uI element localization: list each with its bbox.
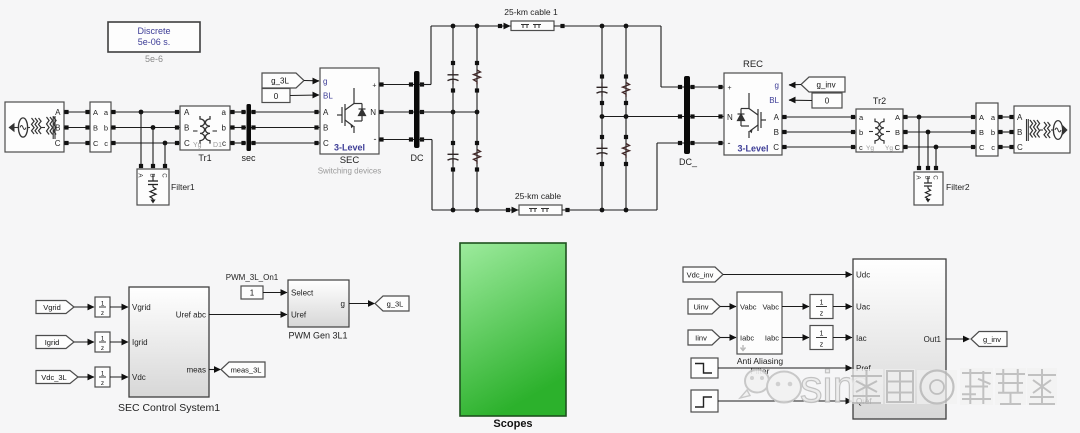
wire Tr1 to sec bus	[230, 110, 246, 145]
svg-text:A: A	[979, 113, 984, 122]
svg-text:Yg: Yg	[866, 145, 874, 152]
svg-text:+: +	[372, 83, 376, 90]
svg-text:1: 1	[101, 336, 105, 343]
block three-phase V-I measurement 1	[90, 102, 111, 152]
svg-text:B: B	[149, 173, 156, 177]
unit delay 1/z (Vgrid)	[95, 297, 110, 317]
svg-text:BL: BL	[323, 92, 333, 101]
constant 0 block (REC BL)	[812, 93, 842, 108]
svg-text:g: g	[323, 77, 327, 86]
svg-text:g_3L: g_3L	[271, 77, 289, 86]
svg-text:Vdc_inv: Vdc_inv	[687, 271, 714, 280]
converter block SEC 3-Level	[320, 68, 379, 154]
svg-text:Igrid: Igrid	[132, 338, 148, 347]
svg-text:3-Level: 3-Level	[334, 143, 365, 153]
label SEC Control System1	[118, 402, 220, 414]
step block Pref	[691, 358, 718, 378]
svg-text:g_3L: g_3L	[387, 300, 404, 309]
svg-text:g_inv: g_inv	[983, 335, 1001, 344]
bus bar sec	[247, 104, 252, 151]
svg-text:meas_3L: meas_3L	[231, 366, 262, 375]
svg-text:A: A	[323, 108, 329, 117]
svg-text:PWM Gen 3L1: PWM Gen 3L1	[288, 331, 347, 341]
svg-text:B: B	[55, 124, 60, 133]
svg-text:c: c	[104, 139, 108, 148]
svg-text:5e-06 s.: 5e-06 s.	[138, 37, 171, 47]
svg-text:Anti Aliasing: Anti Aliasing	[737, 356, 784, 366]
svg-text:Out1: Out1	[924, 335, 942, 344]
wire top rail cable1 to DC_ bus	[554, 24, 684, 90]
wire Out1 to g_inv tag	[946, 336, 970, 343]
svg-text:Tr2: Tr2	[873, 96, 886, 106]
From tag Vdc_inv	[683, 267, 723, 282]
wire unit delays to SEC Control System1	[110, 304, 129, 381]
label PWM Gen 3L1	[288, 331, 347, 341]
svg-text:REC: REC	[743, 59, 763, 70]
label Scopes	[493, 418, 532, 430]
wire DC_ bus to REC + N -	[690, 85, 724, 145]
wire DC bus to rails (top rail, mid rail, bottom rail left)	[419, 23, 519, 214]
svg-text:DC_: DC_	[679, 157, 698, 167]
transformer Tr2	[856, 109, 903, 152]
svg-text:Iinv: Iinv	[695, 334, 707, 343]
svg-text:z: z	[101, 380, 104, 387]
unit delay 1/z (Uac)	[810, 295, 833, 319]
Goto tag meas_3L	[221, 362, 265, 377]
svg-text:g_inv: g_inv	[816, 81, 835, 90]
label Filter2	[946, 182, 970, 192]
block three-phase V-I measurement 2	[976, 103, 998, 156]
label DC	[411, 153, 424, 163]
block 25-km cable	[519, 205, 562, 215]
svg-text:z: z	[820, 342, 824, 349]
svg-text:Iabc: Iabc	[765, 334, 779, 343]
label 5e-6	[145, 54, 163, 64]
svg-text:N: N	[727, 113, 733, 122]
unit delay 1/z (Igrid)	[95, 332, 110, 352]
svg-text:C: C	[323, 139, 329, 148]
capacitor branch column C2 (right)	[597, 26, 608, 210]
transformer Tr1	[180, 106, 230, 150]
From tag g_3L	[262, 73, 304, 88]
From tag Uinv	[688, 299, 720, 314]
svg-text:Vdc_3L: Vdc_3L	[41, 373, 66, 382]
svg-text:B: B	[1017, 128, 1022, 137]
block Filter2	[914, 172, 943, 205]
svg-text:A: A	[184, 108, 190, 117]
block PWM Gen 3L1	[288, 280, 349, 327]
wire unit delay to Iac	[833, 334, 853, 341]
watermark sim + logo + CJK text	[740, 361, 1057, 412]
label Tr2	[873, 96, 886, 106]
wire measurement2 to source2	[998, 115, 1014, 149]
svg-text:A: A	[915, 175, 921, 179]
wire Vabc to unit delay 4	[782, 303, 810, 310]
label 25-km cable 1	[504, 7, 558, 17]
wire source1 to measurement1 phases A B C	[64, 110, 90, 145]
constant 1 block PWM_3L_On1	[241, 286, 263, 299]
label DC_	[679, 157, 698, 167]
wire measurement1 to Tr1 with taps down to Filter1	[111, 110, 180, 168]
svg-text:N: N	[370, 108, 376, 117]
svg-text:b: b	[859, 128, 863, 137]
svg-text:SEC Control System1: SEC Control System1	[118, 402, 220, 414]
svg-text:Filter1: Filter1	[171, 182, 195, 192]
svg-text:c: c	[991, 143, 995, 152]
label sec	[241, 153, 256, 163]
unit delay 1/z (Vdc)	[95, 367, 110, 387]
label Tr1	[198, 153, 211, 163]
bus bar DC	[414, 71, 420, 148]
svg-text:-: -	[728, 138, 731, 148]
svg-text:B: B	[323, 124, 328, 133]
block AC source 1 (three-phase source)	[5, 102, 64, 152]
From tag Vdc_3L	[36, 371, 78, 384]
label REC	[743, 59, 763, 70]
svg-text:C: C	[161, 173, 168, 178]
svg-text:A: A	[1017, 113, 1023, 122]
block Filter1	[137, 169, 170, 205]
label SEC	[340, 155, 360, 166]
svg-text:C: C	[932, 175, 938, 180]
svg-text:Vabc: Vabc	[740, 303, 757, 312]
powergui block Discrete 5e-06 s.	[108, 22, 200, 52]
svg-text:a: a	[222, 108, 227, 117]
svg-text:Udc: Udc	[856, 271, 870, 280]
wire Vdc_inv to Udc	[723, 271, 853, 278]
wire step to Pref	[718, 365, 853, 372]
svg-text:+: +	[728, 85, 732, 92]
svg-text:C: C	[55, 139, 61, 148]
wire Uref abc to PWM Gen	[209, 311, 288, 318]
wire sec bus to SEC converter A B C	[251, 110, 320, 145]
svg-text:Igrid: Igrid	[45, 338, 60, 347]
wire Igrid to unit delay	[74, 339, 95, 346]
wire meas to meas_3L tag	[209, 366, 221, 373]
wire Iinv to Iabc	[720, 334, 737, 341]
svg-text:-: -	[374, 134, 377, 144]
svg-text:C: C	[184, 139, 190, 148]
svg-text:A: A	[774, 113, 780, 122]
From tag Iinv	[688, 330, 720, 345]
svg-text:25-km cable 1: 25-km cable 1	[504, 7, 558, 17]
svg-text:25-km cable: 25-km cable	[515, 191, 562, 201]
svg-text:5e-6: 5e-6	[145, 54, 163, 64]
subsystem SEC Control System1	[129, 287, 209, 397]
unit delay 1/z (Iac)	[810, 326, 833, 350]
wire g_3L to SEC gate	[304, 78, 320, 85]
label Filter1	[171, 182, 195, 192]
svg-text:c: c	[859, 143, 863, 152]
svg-text:0: 0	[274, 92, 279, 101]
svg-text:B: B	[184, 124, 189, 133]
capacitor branch column C1 (left)	[448, 26, 459, 210]
svg-text:g: g	[775, 81, 779, 90]
wire SEC to DC bus rows + N -	[379, 82, 414, 141]
From tag Igrid	[36, 336, 74, 349]
svg-text:Vdc: Vdc	[132, 373, 146, 382]
svg-text:3-Level: 3-Level	[737, 144, 768, 154]
label PWM_3L_On1	[226, 273, 279, 282]
wire Uinv to Vabc	[720, 303, 737, 310]
svg-text:Scopes: Scopes	[493, 418, 532, 430]
svg-text:sec: sec	[241, 153, 256, 163]
label Switching devices	[318, 167, 382, 176]
svg-text:g: g	[341, 300, 345, 309]
svg-text:Vabc: Vabc	[762, 303, 779, 312]
svg-text:C: C	[979, 143, 985, 152]
svg-text:B: B	[895, 128, 900, 137]
svg-text:SEC: SEC	[340, 155, 360, 166]
wire mid rail right to DC_ bus	[600, 114, 684, 119]
svg-text:A: A	[93, 108, 98, 117]
Goto tag g_inv (bottom)	[971, 332, 1007, 347]
svg-text:c: c	[222, 139, 226, 148]
svg-text:B: B	[93, 124, 98, 133]
svg-text:Vgrid: Vgrid	[132, 303, 151, 312]
svg-text:Vgrid: Vgrid	[43, 303, 61, 312]
svg-text:Iac: Iac	[856, 334, 867, 343]
svg-text:z: z	[101, 310, 104, 317]
From tag g_inv (top)	[801, 77, 845, 92]
wire PWM g to g_3L tag	[349, 300, 375, 307]
wire Vdc_3L to unit delay	[78, 374, 95, 381]
block AC source 2 (three-phase source)	[1014, 106, 1070, 153]
svg-text:z: z	[101, 345, 104, 352]
svg-text:BL: BL	[769, 96, 779, 105]
svg-text:Iabc: Iabc	[740, 334, 754, 343]
step block Qref	[691, 390, 718, 412]
wire Iabc to unit delay 5	[782, 334, 810, 341]
wire g_inv tag to REC gate	[789, 82, 802, 89]
Goto tag g_3L	[375, 296, 409, 311]
wire constant0 to SEC BL	[290, 92, 320, 99]
svg-text:Switching devices: Switching devices	[318, 167, 382, 176]
svg-text:meas: meas	[186, 366, 206, 375]
svg-text:Yg: Yg	[193, 142, 202, 149]
svg-text:b: b	[104, 124, 108, 133]
svg-text:A: A	[55, 108, 61, 117]
svg-text:C: C	[1017, 143, 1023, 152]
From tag Vgrid	[36, 301, 74, 314]
svg-text:DC: DC	[411, 153, 424, 163]
svg-text:C: C	[895, 143, 901, 152]
svg-text:C: C	[773, 143, 779, 152]
svg-text:1: 1	[820, 331, 824, 338]
svg-text:Yg: Yg	[885, 145, 893, 152]
svg-text:1: 1	[820, 300, 824, 307]
svg-text:Uref abc: Uref abc	[176, 311, 206, 320]
svg-text:PWM_3L_On1: PWM_3L_On1	[226, 273, 279, 282]
constant 0 block	[262, 89, 290, 103]
svg-text:B: B	[979, 128, 984, 137]
svg-text:Uinv: Uinv	[693, 303, 708, 312]
svg-text:Discrete: Discrete	[137, 26, 170, 36]
wire constant1 to Select	[263, 289, 288, 296]
subsystem REC control block	[853, 259, 946, 419]
RL branch column R2 (right)	[623, 26, 630, 210]
wire bottom rail cable to DC_ bus	[562, 141, 684, 213]
svg-text:1: 1	[250, 289, 255, 298]
wire constant0 to REC BL	[789, 97, 813, 104]
wire REC to Tr2 a b c	[782, 115, 856, 149]
svg-text:Tr1: Tr1	[198, 153, 211, 163]
block 25-km cable 1	[511, 21, 554, 31]
svg-text:C: C	[93, 139, 99, 148]
svg-text:B: B	[774, 128, 779, 137]
wire step to Qref	[718, 398, 853, 405]
svg-text:1: 1	[101, 371, 105, 378]
svg-text:b: b	[222, 124, 227, 133]
svg-text:Filter2: Filter2	[946, 182, 970, 192]
scope block Scopes	[460, 243, 566, 416]
block Anti Aliasing Filter	[737, 292, 782, 354]
svg-text:1: 1	[101, 301, 105, 308]
wire Vgrid to unit delay	[74, 304, 95, 311]
bus bar DC_	[684, 76, 690, 154]
converter block REC 3-Level	[724, 73, 782, 155]
svg-text:Uref: Uref	[291, 311, 307, 320]
svg-text:D1: D1	[213, 142, 222, 149]
svg-text:b: b	[991, 128, 995, 137]
label Anti Aliasing Filter	[737, 356, 784, 376]
wire Tr2 to measurement2 with taps to Filter2	[903, 115, 976, 170]
svg-text:z: z	[820, 311, 824, 318]
RL branch column R1 (left)	[474, 26, 481, 210]
wire unit delay to Uac	[833, 303, 853, 310]
svg-text:A: A	[895, 113, 900, 122]
label 25-km cable	[515, 191, 562, 201]
svg-text:Uac: Uac	[856, 303, 870, 312]
svg-text:Select: Select	[291, 289, 314, 298]
svg-text:B: B	[924, 175, 930, 179]
svg-text:0: 0	[825, 97, 830, 106]
